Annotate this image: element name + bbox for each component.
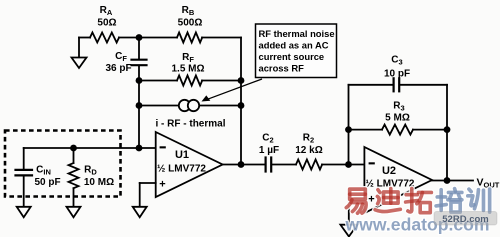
- annotation callout box: [256, 24, 337, 78]
- wire top rail: [79, 37, 90, 39]
- current source i-RF-thermal: [179, 100, 199, 111]
- node CS right: [238, 102, 245, 109]
- node CS left: [136, 102, 143, 109]
- svg-text:500Ω: 500Ω: [178, 18, 203, 29]
- svg-text:U1: U1: [175, 149, 189, 161]
- svg-text:5 MΩ: 5 MΩ: [385, 112, 410, 123]
- node U1 inverting input: [136, 145, 143, 152]
- svg-text:1 µF: 1 µF: [259, 145, 279, 156]
- watermark CJK chars (hand drawn strokes): [346, 189, 489, 214]
- node RF right: [238, 77, 245, 84]
- wire U1 output: [223, 164, 265, 166]
- wire U2 plus input: [349, 197, 365, 199]
- wire CIN top stub: [23, 148, 25, 169]
- svg-text:C3: C3: [391, 54, 402, 66]
- resistor RA: [90, 33, 119, 43]
- dashed input source box: [5, 131, 121, 197]
- wire C3 branch left: [349, 84, 394, 86]
- node RD top: [70, 145, 77, 152]
- wire U2 feedback left leg: [348, 85, 350, 165]
- resistor RF: [177, 76, 202, 86]
- resistor R2: [296, 160, 322, 170]
- node RF left: [136, 77, 143, 84]
- op-amp U2: [364, 147, 432, 213]
- svg-text:C2: C2: [262, 132, 273, 144]
- watermark char di: [375, 189, 400, 212]
- ground G2: [17, 207, 31, 218]
- wire R3 branch left: [349, 129, 383, 131]
- wire RF branch left: [139, 80, 177, 82]
- svg-text:current source: current source: [259, 51, 325, 62]
- wire U2 plus ground stub: [348, 198, 350, 225]
- wire RF branch right: [202, 80, 241, 82]
- wire RD top stub: [73, 148, 75, 163]
- wire ground stub left: [78, 38, 80, 58]
- svg-text:10 pF: 10 pF: [384, 68, 410, 79]
- label U2 minus: [369, 162, 375, 164]
- watermark char pei: [436, 189, 462, 213]
- node R3 left: [345, 126, 352, 133]
- wire input rail: [24, 147, 156, 149]
- wire current source branch: [139, 105, 241, 107]
- wire CF down to input node: [138, 66, 140, 148]
- svg-text:RF thermal noise: RF thermal noise: [259, 28, 335, 39]
- watermark badge 52RD.com: [434, 212, 497, 226]
- wire node A down to CF: [138, 38, 140, 60]
- ground G3: [67, 207, 81, 218]
- svg-text:+: +: [368, 194, 374, 206]
- capacitor C2: [266, 158, 272, 172]
- ground G4: [133, 207, 147, 218]
- node R3 right: [444, 126, 451, 133]
- resistor RD: [69, 163, 79, 188]
- svg-text:+: +: [159, 179, 165, 191]
- wire U1 plus input: [140, 182, 156, 184]
- svg-text:12 kΩ: 12 kΩ: [295, 145, 322, 156]
- svg-text:52RD.com: 52RD.com: [442, 214, 488, 225]
- wire feedback vertical right: [240, 38, 242, 165]
- wire RB to feedback corner: [202, 37, 241, 39]
- svg-text:RA: RA: [100, 5, 113, 17]
- svg-text:RB: RB: [182, 5, 195, 17]
- svg-text:U2: U2: [382, 165, 396, 177]
- svg-text:50 pF: 50 pF: [34, 177, 60, 188]
- capacitor C3: [394, 78, 400, 91]
- arrow callout to current source: [202, 79, 263, 102]
- resistor R3: [382, 125, 413, 135]
- wire C3 branch right: [400, 84, 447, 86]
- wire U1 plus ground stub: [139, 183, 141, 207]
- wire R2 to U2 input: [322, 164, 364, 166]
- watermark char xun: [468, 189, 490, 212]
- wire C2 to R2: [272, 164, 296, 166]
- wire R3 branch right: [413, 129, 447, 131]
- node U2 inverting input: [345, 161, 352, 168]
- watermark char yi: [346, 189, 366, 213]
- svg-text:CF: CF: [115, 51, 127, 63]
- wire U2 feedback right leg: [446, 85, 448, 181]
- ground G5: [340, 225, 357, 237]
- label U1 minus: [160, 146, 166, 148]
- svg-text:across RF: across RF: [259, 63, 305, 74]
- svg-text:½ LMV772: ½ LMV772: [157, 163, 206, 174]
- svg-text:added as an AC: added as an AC: [259, 40, 329, 51]
- svg-text:i - RF - thermal: i - RF - thermal: [155, 118, 225, 129]
- watermark char tuo: [406, 189, 432, 213]
- wire CIN bottom stub: [23, 176, 25, 207]
- svg-text:36 pF: 36 pF: [105, 63, 131, 74]
- svg-text:R2: R2: [303, 132, 314, 144]
- wire U2 output: [432, 180, 473, 182]
- capacitor CF: [132, 60, 147, 65]
- watermark url: [345, 215, 490, 235]
- op-amp U1: [156, 132, 223, 197]
- ground G1: [72, 58, 87, 69]
- svg-text:CIN: CIN: [36, 165, 51, 177]
- svg-text:50Ω: 50Ω: [97, 18, 116, 29]
- node U2 output: [444, 177, 451, 184]
- wire RD bottom stub: [73, 188, 75, 207]
- svg-text:1.5 MΩ: 1.5 MΩ: [171, 63, 204, 74]
- resistor RB: [177, 33, 202, 43]
- wire RA to node A: [119, 37, 177, 39]
- svg-text:R3: R3: [393, 100, 404, 112]
- svg-text:RD: RD: [84, 165, 97, 177]
- capacitor CIN: [16, 170, 33, 176]
- node top-CF junction: [136, 34, 143, 41]
- node U1 output: [238, 161, 245, 168]
- svg-text:10 MΩ: 10 MΩ: [84, 177, 114, 188]
